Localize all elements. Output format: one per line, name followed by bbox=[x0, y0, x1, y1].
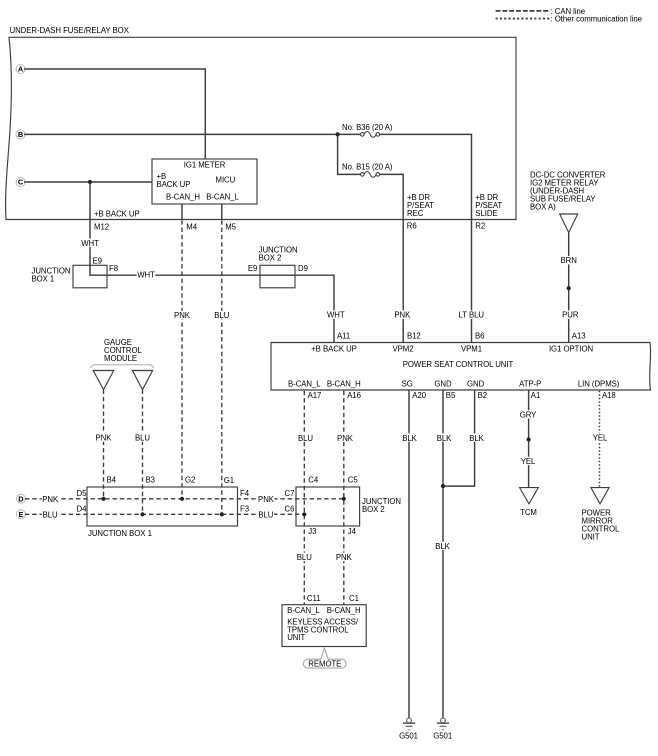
svg-text:TCM: TCM bbox=[520, 508, 537, 517]
svg-text:E9: E9 bbox=[248, 264, 257, 273]
svg-text:BLU: BLU bbox=[135, 434, 150, 443]
svg-text:POWER SEAT CONTROL UNIT: POWER SEAT CONTROL UNIT bbox=[403, 360, 514, 369]
svg-text:PUR: PUR bbox=[562, 311, 579, 320]
triangle gauge PNK bbox=[93, 371, 114, 390]
svg-text:ATP-P: ATP-P bbox=[519, 380, 541, 389]
svg-text:E9: E9 bbox=[93, 256, 102, 265]
svg-text:PNK: PNK bbox=[336, 553, 353, 562]
junction dot GND merge bbox=[441, 484, 445, 488]
label DC-DC converter bbox=[530, 170, 606, 211]
svg-text:PNK: PNK bbox=[42, 495, 59, 504]
svg-text:B-CAN_L: B-CAN_L bbox=[206, 192, 239, 201]
svg-text:C: C bbox=[18, 178, 24, 187]
junction dot fuse branch bbox=[336, 132, 340, 136]
svg-text:WHT: WHT bbox=[137, 271, 155, 280]
svg-text:C1: C1 bbox=[349, 594, 359, 603]
wire D4 row BLU CAN bbox=[25, 513, 304, 515]
junction dot C5 bbox=[342, 497, 346, 501]
triangle DC-DC converter bbox=[560, 214, 578, 233]
svg-text:MICU: MICU bbox=[216, 175, 236, 184]
svg-text:BOX 2: BOX 2 bbox=[362, 505, 385, 514]
svg-text:A18: A18 bbox=[602, 391, 616, 400]
ground G501 left bbox=[399, 718, 418, 740]
connector B bbox=[16, 130, 25, 139]
label junction box 2 lower bbox=[362, 497, 401, 514]
wire M12 WHT to A11 bbox=[90, 182, 334, 343]
svg-text:BLU: BLU bbox=[214, 311, 229, 320]
svg-text:MODULE: MODULE bbox=[104, 354, 137, 363]
connector D bbox=[16, 494, 25, 503]
svg-text:BOX 1: BOX 1 bbox=[32, 275, 55, 284]
svg-text:BLU: BLU bbox=[298, 434, 313, 443]
label PUR bbox=[562, 310, 579, 319]
connector C bbox=[16, 178, 25, 187]
label PNK gauge bbox=[95, 433, 112, 442]
svg-text:REMOTE: REMOTE bbox=[308, 660, 341, 669]
svg-text:R2: R2 bbox=[475, 222, 485, 231]
label WHT on A11 wire bbox=[326, 310, 345, 319]
svg-text:BACK UP: BACK UP bbox=[157, 180, 191, 189]
junction box 1 lower bbox=[87, 487, 238, 526]
svg-text:BLU: BLU bbox=[43, 510, 58, 519]
svg-text:A11: A11 bbox=[337, 331, 350, 340]
svg-text:B-CAN_L: B-CAN_L bbox=[287, 606, 320, 615]
junction dot BRN/PUR splice bbox=[567, 286, 571, 290]
label +B DR P/SEAT SLIDE bbox=[475, 193, 502, 218]
wire gauge BLU to B3 bbox=[142, 390, 144, 514]
svg-text:D5: D5 bbox=[77, 489, 88, 498]
svg-text:WHT: WHT bbox=[327, 311, 345, 320]
junction dot M12 branch bbox=[88, 180, 92, 184]
wire LIN (DPMS) dotted bbox=[599, 391, 601, 488]
label LT BLU on B6 wire bbox=[458, 310, 485, 319]
svg-text:B3: B3 bbox=[146, 476, 155, 485]
keyless access/TPMS control unit box bbox=[282, 605, 366, 647]
fuse No. B15 (20 A) bbox=[342, 163, 393, 178]
svg-text:A: A bbox=[18, 65, 24, 74]
label BLK merged bbox=[434, 542, 451, 551]
svg-text:No. B36 (20 A): No. B36 (20 A) bbox=[342, 123, 393, 132]
svg-text:A16: A16 bbox=[347, 391, 361, 400]
label PNK A16 bbox=[337, 433, 354, 443]
label WHT on horizontal wire bbox=[137, 270, 156, 279]
svg-text:C5: C5 bbox=[348, 476, 359, 485]
label PNK J4 bbox=[335, 553, 352, 562]
label YEL ATP-P bbox=[520, 457, 537, 466]
svg-text:UNIT: UNIT bbox=[582, 533, 600, 542]
wire SG to ground bbox=[408, 390, 410, 718]
svg-text:B-CAN_L: B-CAN_L bbox=[288, 380, 321, 389]
wire B-CAN_H A16 to C1 bbox=[343, 391, 345, 605]
wire M5 CAN to G1 bbox=[221, 220, 223, 514]
connector A bbox=[16, 65, 25, 74]
wire C to IG1 METER bbox=[24, 181, 152, 183]
legend CAN line bbox=[496, 7, 586, 16]
svg-text:PNK: PNK bbox=[96, 434, 113, 443]
svg-text:+B BACK UP: +B BACK UP bbox=[311, 345, 357, 354]
svg-text:F3: F3 bbox=[240, 504, 249, 513]
svg-text:C6: C6 bbox=[285, 504, 295, 513]
wire gauge PNK to B4 bbox=[103, 390, 105, 499]
svg-text:WHT: WHT bbox=[81, 239, 99, 248]
label YEL LIN bbox=[592, 433, 609, 442]
svg-text:IG1 OPTION: IG1 OPTION bbox=[549, 345, 593, 354]
wire M4 CAN to G2 bbox=[181, 220, 183, 498]
svg-text:BLK: BLK bbox=[469, 434, 484, 443]
label PNK on M4 wire bbox=[174, 311, 191, 320]
svg-text:BLK: BLK bbox=[402, 434, 417, 443]
label gauge control module bbox=[104, 338, 142, 363]
wire A13 BRN/PUR bbox=[568, 233, 570, 343]
svg-text:B: B bbox=[18, 130, 23, 139]
label junction box 1 bbox=[32, 267, 71, 284]
triangle power mirror bbox=[591, 488, 609, 504]
svg-text:BLU: BLU bbox=[297, 553, 312, 562]
svg-text:A1: A1 bbox=[531, 391, 540, 400]
label BLK B5 bbox=[435, 433, 452, 443]
power seat control unit box bbox=[271, 343, 651, 391]
svg-text:YEL: YEL bbox=[521, 457, 536, 466]
label GRY bbox=[519, 410, 537, 419]
svg-text:M4: M4 bbox=[186, 223, 197, 232]
connector E bbox=[16, 510, 25, 519]
svg-text:PNK: PNK bbox=[337, 434, 354, 443]
junction box 2 lower bbox=[296, 487, 360, 526]
svg-text:LT BLU: LT BLU bbox=[459, 311, 485, 320]
op IG1 METER box bbox=[152, 159, 257, 204]
svg-text:R6: R6 bbox=[407, 222, 417, 231]
svg-text:B4: B4 bbox=[107, 476, 117, 485]
bracket gauge control module bbox=[91, 365, 154, 369]
junction box 2 upper bbox=[260, 265, 295, 288]
svg-text:YEL: YEL bbox=[593, 434, 608, 443]
fuse No. B36 (20 A) bbox=[342, 123, 393, 137]
pin M5 stub bbox=[221, 204, 223, 220]
svg-text:C11: C11 bbox=[307, 594, 321, 603]
svg-text:D: D bbox=[18, 495, 24, 504]
label BLU row E bbox=[42, 510, 58, 519]
junction dot ATP-P splice bbox=[527, 437, 531, 441]
svg-text:GND: GND bbox=[467, 380, 485, 389]
REMOTE balloon bbox=[303, 648, 346, 668]
triangle TCM bbox=[520, 488, 539, 504]
label BLU row F3 bbox=[258, 510, 274, 519]
svg-text:PNK: PNK bbox=[174, 311, 191, 320]
svg-text:G501: G501 bbox=[399, 731, 418, 740]
svg-text:SLIDE: SLIDE bbox=[475, 209, 497, 218]
wire B through fuse B36 to R2 bbox=[24, 134, 471, 342]
under-dash fuse/relay box bbox=[6, 37, 516, 219]
svg-text:UNIT: UNIT bbox=[287, 633, 305, 642]
svg-text:GND: GND bbox=[434, 380, 452, 389]
svg-text:B5: B5 bbox=[446, 391, 456, 400]
svg-text:C7: C7 bbox=[285, 489, 295, 498]
svg-text:D9: D9 bbox=[298, 264, 308, 273]
svg-text:LIN (DPMS): LIN (DPMS) bbox=[578, 380, 620, 389]
wire A to IG1 METER bbox=[24, 69, 205, 159]
svg-text:PNK: PNK bbox=[394, 311, 411, 320]
svg-text:G1: G1 bbox=[224, 476, 234, 485]
svg-text:SG: SG bbox=[402, 380, 413, 389]
label junction box 2 upper bbox=[259, 246, 298, 263]
svg-text:BRN: BRN bbox=[561, 256, 577, 265]
label PNK row F4 bbox=[258, 495, 275, 504]
svg-text:A13: A13 bbox=[572, 331, 586, 340]
svg-text:F4: F4 bbox=[240, 489, 250, 498]
svg-text:VPM1: VPM1 bbox=[461, 345, 482, 354]
svg-text:PNK: PNK bbox=[258, 495, 275, 504]
wire GND B5 to ground bbox=[442, 390, 444, 718]
wire branch through fuse B15 to R6 bbox=[338, 134, 404, 342]
svg-text:M12: M12 bbox=[94, 223, 109, 232]
svg-text:E: E bbox=[18, 510, 23, 519]
svg-text:JUNCTION BOX 1: JUNCTION BOX 1 bbox=[88, 529, 152, 538]
label PNK on B12 wire bbox=[394, 310, 411, 319]
label BRN bbox=[560, 256, 578, 265]
svg-text:A20: A20 bbox=[412, 391, 426, 400]
svg-text:B-CAN_H: B-CAN_H bbox=[327, 606, 361, 615]
label BLK SG bbox=[401, 433, 418, 443]
svg-text:UNDER-DASH FUSE/RELAY BOX: UNDER-DASH FUSE/RELAY BOX bbox=[10, 26, 130, 35]
svg-text:IG1 METER: IG1 METER bbox=[184, 160, 226, 169]
svg-text:F8: F8 bbox=[109, 264, 118, 273]
svg-text:B2: B2 bbox=[478, 391, 487, 400]
svg-text:C4: C4 bbox=[308, 476, 319, 485]
junction dot B4 bbox=[101, 497, 105, 501]
label WHT on M12 wire bbox=[81, 239, 100, 248]
ground G501 right bbox=[433, 718, 452, 740]
junction dot G2 bbox=[180, 497, 184, 501]
junction dot G1 bbox=[220, 512, 224, 516]
label +B DR P/SEAT REC bbox=[407, 193, 434, 218]
svg-text:B-CAN_H: B-CAN_H bbox=[327, 380, 361, 389]
svg-text:BLK: BLK bbox=[435, 542, 450, 551]
svg-text:J3: J3 bbox=[308, 527, 316, 536]
label BLK B2 bbox=[468, 433, 485, 443]
svg-text:G2: G2 bbox=[185, 476, 195, 485]
junction box 1 upper bbox=[73, 265, 107, 288]
svg-text:BLU: BLU bbox=[258, 510, 273, 519]
label power mirror control unit bbox=[582, 509, 620, 542]
pin M4 stub bbox=[181, 204, 183, 220]
label BLU gauge bbox=[134, 433, 150, 442]
wire GND B2 merge bbox=[443, 390, 475, 486]
svg-text:VPM2: VPM2 bbox=[392, 345, 413, 354]
svg-text:BOX 2: BOX 2 bbox=[259, 254, 282, 263]
label PNK row D bbox=[42, 495, 59, 504]
svg-text:A17: A17 bbox=[308, 391, 322, 400]
triangle gauge BLU bbox=[132, 371, 152, 390]
svg-text:J4: J4 bbox=[348, 527, 357, 536]
svg-text:B6: B6 bbox=[475, 331, 484, 340]
label BLU J3 bbox=[296, 553, 312, 562]
wire D5 row PNK CAN bbox=[25, 498, 344, 500]
svg-text:BOX A): BOX A) bbox=[530, 203, 556, 212]
legend Other communication line bbox=[496, 15, 642, 24]
junction dot B3 bbox=[140, 512, 144, 516]
label BLU A17 bbox=[297, 433, 313, 443]
junction dot C4 bbox=[302, 512, 306, 516]
svg-text:D4: D4 bbox=[77, 504, 88, 513]
svg-text:GRY: GRY bbox=[520, 410, 537, 419]
wire ATP-P to TCM bbox=[528, 390, 530, 488]
svg-text:REC: REC bbox=[407, 209, 424, 218]
svg-text:B-CAN_H: B-CAN_H bbox=[166, 192, 200, 201]
svg-text:+B BACK UP: +B BACK UP bbox=[94, 209, 140, 218]
svg-text:BLK: BLK bbox=[437, 434, 452, 443]
svg-text:G501: G501 bbox=[433, 731, 452, 740]
wire B-CAN_L A17 to C11 bbox=[303, 391, 305, 605]
svg-text:: Other communication line: : Other communication line bbox=[551, 15, 642, 24]
label BLU on M5 wire bbox=[214, 311, 230, 320]
svg-text:M5: M5 bbox=[225, 223, 236, 232]
svg-text:No. B15 (20 A): No. B15 (20 A) bbox=[342, 163, 393, 172]
svg-text:B12: B12 bbox=[407, 331, 421, 340]
